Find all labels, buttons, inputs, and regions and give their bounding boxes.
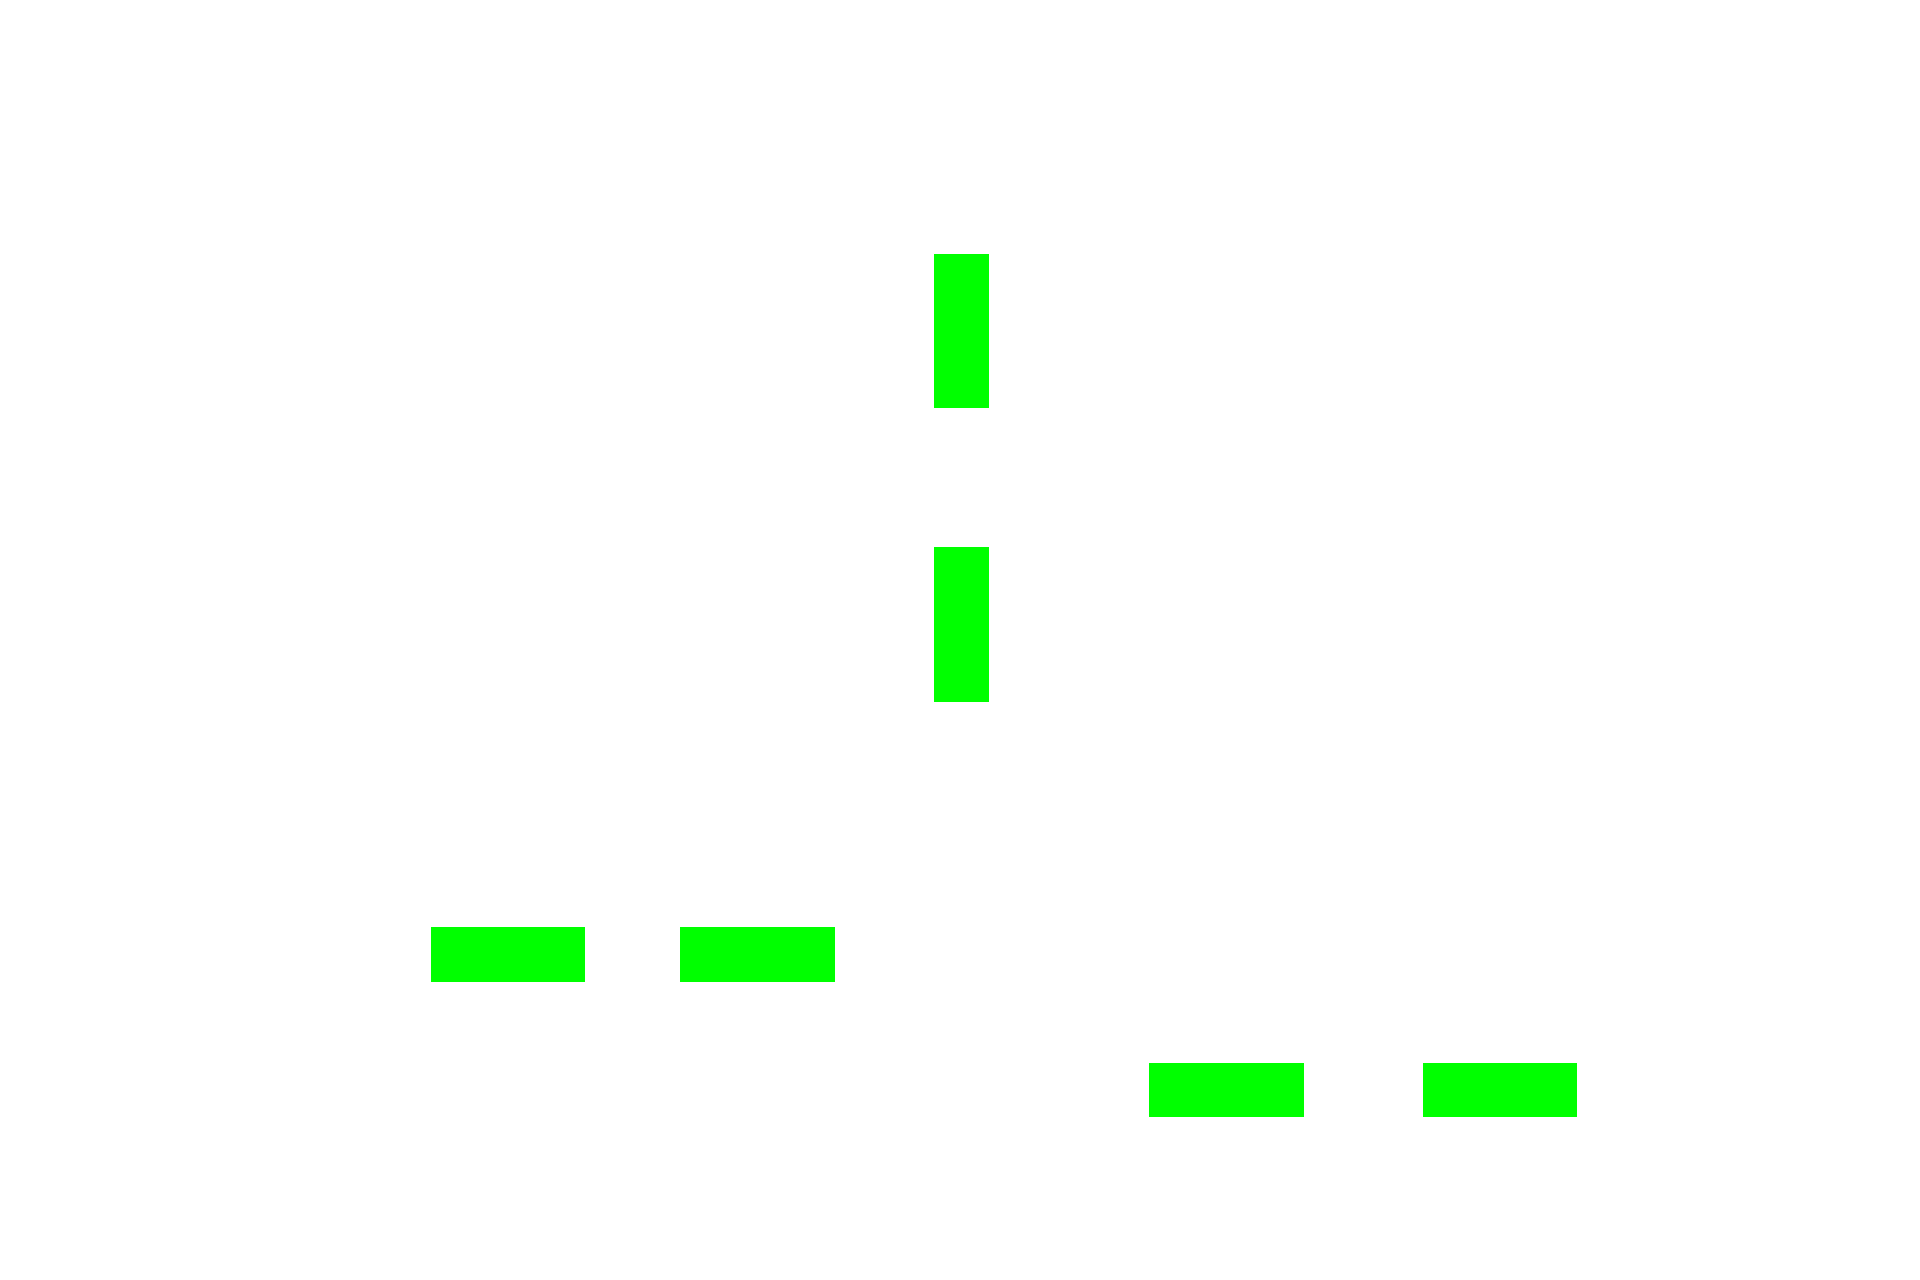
resistor R2 (vertical, masked by green overlay) xyxy=(934,547,989,702)
resistor R4 (horizontal, masked by green overlay) xyxy=(680,927,835,982)
resistor R3 (horizontal, masked by green overlay) xyxy=(431,927,585,982)
resistor R5 (horizontal, masked by green overlay) xyxy=(1149,1063,1304,1117)
resistor R6 (horizontal, masked by green overlay) xyxy=(1423,1063,1577,1117)
resistor R1 (vertical, masked by green overlay) xyxy=(934,254,989,408)
